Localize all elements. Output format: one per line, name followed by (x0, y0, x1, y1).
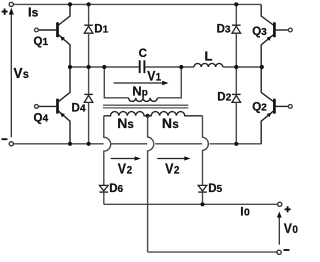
node D5 output junction (200, 202, 204, 206)
arrow V0 (output voltage) (278, 217, 280, 245)
svg-text:Vs: Vs (14, 65, 29, 82)
wire primary loop left drop (104, 67, 128, 98)
arrow V2 left (111, 158, 135, 160)
wire center tap drop with hop (148, 116, 154, 252)
node mid rail D1-D4 (87, 65, 91, 69)
svg-text:L: L (205, 48, 213, 63)
svg-text:V2: V2 (118, 160, 132, 176)
terminal - output (277, 250, 281, 254)
svg-text:V2: V2 (165, 160, 179, 176)
node bottom rail D4 (87, 142, 91, 146)
label - (output minus) (284, 249, 290, 251)
node mid rail primary left (102, 65, 106, 69)
wire top rail (13, 3, 261, 5)
node secondary center tap (146, 114, 150, 118)
wire bottom rail segment 1 (13, 143, 103, 145)
winding Ns left secondary coil (104, 112, 148, 116)
transistor Q2 (261, 67, 292, 144)
node mid rail Q3-Q2 (260, 65, 264, 69)
wire bottom rail segment 4 (210, 143, 262, 145)
arrow V2 right (157, 158, 184, 160)
arrow V1 (primary voltage) (114, 82, 163, 84)
diode D3 (232, 4, 241, 67)
svg-text:Q3: Q3 (252, 26, 267, 38)
svg-text:D1: D1 (94, 23, 108, 35)
svg-text:D3: D3 (217, 23, 231, 35)
diode D5 (198, 185, 207, 204)
svg-text:D6: D6 (109, 183, 123, 195)
svg-text:V0: V0 (284, 220, 298, 236)
svg-text:C: C (139, 48, 147, 60)
svg-text:Q1: Q1 (34, 36, 49, 48)
svg-text:Q2: Q2 (252, 102, 267, 114)
transformer core (103, 105, 188, 108)
node top rail Q1 (68, 2, 72, 6)
terminal + input top-left (9, 2, 13, 6)
wire secondary left drop with hop (104, 116, 111, 186)
diode D6 (100, 185, 109, 204)
diode D2 (232, 67, 241, 144)
inductor L (194, 63, 223, 67)
diode D1 (84, 4, 93, 67)
transistor Q1 (35, 4, 71, 67)
node mid rail primary right (179, 65, 183, 69)
svg-text:Is: Is (28, 5, 39, 20)
node mid rail Q1-Q4 (68, 65, 72, 69)
node bottom rail Q4 (68, 142, 72, 146)
wire primary loop right drop (157, 67, 181, 98)
winding Np primary coil (129, 98, 158, 102)
node top rail D1 (87, 2, 91, 6)
terminal + output (278, 202, 282, 206)
wire mid rail center (145, 66, 194, 68)
arrow Vs (source voltage) (10, 14, 12, 137)
svg-text:D5: D5 (208, 183, 222, 195)
terminal - input bottom-left (9, 142, 13, 146)
wire bottom rail segment 2 (111, 143, 147, 145)
svg-text:Q4: Q4 (34, 113, 49, 125)
wire bottom rail segment 3 (155, 143, 202, 145)
transistor Q4 (35, 67, 71, 144)
node top rail D3 (234, 2, 238, 6)
winding Ns right secondary coil (148, 112, 203, 116)
label + (output plus) (285, 206, 291, 212)
label - (input minus) (2, 138, 8, 140)
svg-text:I0: I0 (240, 205, 250, 219)
label + (input plus) (2, 9, 8, 15)
node mid rail D3-D2 (234, 65, 238, 69)
wire mid rail right (223, 66, 262, 68)
wire mid rail left (70, 66, 139, 68)
capacitor C (140, 60, 145, 73)
wire output minus rail (148, 251, 277, 253)
wire secondary right drop with hop (203, 116, 209, 186)
transistor Q3 (261, 4, 292, 67)
node bottom rail D2 (234, 142, 238, 146)
svg-text:D2: D2 (217, 92, 231, 104)
svg-text:D4: D4 (72, 103, 86, 115)
diode D4 (84, 67, 93, 144)
wire output plus rail (104, 203, 278, 205)
